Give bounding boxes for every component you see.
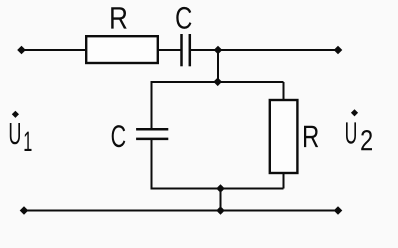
wire C1 to right terminal <box>190 49 338 51</box>
wire loop left lower <box>151 139 153 190</box>
label C (top capacitor) <box>176 7 191 29</box>
terminal top-left <box>17 46 26 55</box>
resistor R1 (top, horizontal) <box>86 36 158 63</box>
node junction loop top <box>213 78 222 87</box>
node junction top rail <box>214 46 223 55</box>
wire loop left upper <box>151 81 153 129</box>
capacitor C2 (vertical, shunt) <box>136 129 168 139</box>
wire loop top edge <box>152 81 284 83</box>
capacitor C1 (top, series) <box>182 34 190 66</box>
wire R1 to C1 <box>158 49 182 51</box>
wire top-left <box>21 49 87 51</box>
label C (shunt capacitor) <box>112 125 126 147</box>
wire loop bottom to bottom rail <box>220 189 222 211</box>
wire R2 top stub <box>283 82 285 100</box>
wire junction down to loop <box>217 50 219 82</box>
label U1 (input voltage phasor) <box>10 111 32 151</box>
wire loop bottom edge <box>152 188 284 190</box>
terminal bottom-right <box>334 206 343 215</box>
wire R2 bottom stub <box>283 173 285 189</box>
terminal bottom-left <box>20 206 29 215</box>
wire bottom rail <box>24 210 338 212</box>
label R (shunt resistor) <box>304 126 318 147</box>
label R (top resistor) <box>111 7 127 28</box>
resistor R2 (vertical, shunt) <box>270 100 298 173</box>
label U2 (output voltage phasor) <box>346 109 372 150</box>
terminal top-right <box>334 46 343 55</box>
node junction loop bottom <box>216 184 225 193</box>
node junction bottom rail <box>216 206 225 215</box>
